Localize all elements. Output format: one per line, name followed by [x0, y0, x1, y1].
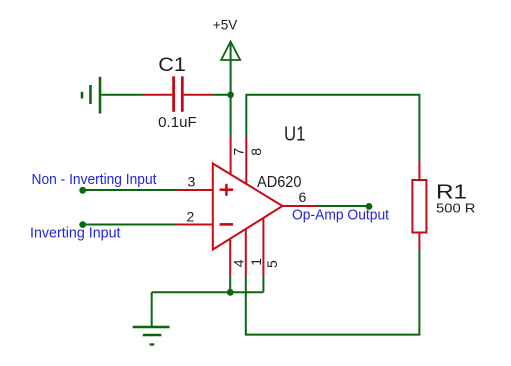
ground rail wire (green)	[152, 291, 264, 293]
wire pin 5 down to ground rail (green)	[262, 276, 264, 292]
svg-text:U1: U1	[284, 124, 306, 146]
power symbol +5V triangle	[221, 42, 240, 61]
pin 1 stub red	[245, 230, 247, 277]
pin 7 stub red	[230, 138, 232, 175]
svg-text:0.1uF: 0.1uF	[158, 114, 197, 131]
pin 6 output stub red	[283, 205, 318, 207]
wire pin 1 down and right to R1 bottom (green)	[246, 250, 420, 335]
node junction dot at +5V / C1	[227, 92, 234, 99]
svg-text:7: 7	[231, 148, 247, 156]
op-amp U1 triangle	[213, 164, 283, 250]
svg-text:5: 5	[264, 260, 280, 268]
wire pin 8 up and across (green)	[246, 95, 419, 162]
wire output (green)	[317, 205, 369, 207]
ground symbol	[133, 327, 170, 345]
svg-text:Inverting Input: Inverting Input	[30, 225, 121, 242]
svg-text:Op-Amp Output: Op-Amp Output	[292, 207, 389, 223]
wire C1 right lead (red)	[184, 94, 213, 96]
svg-text:8: 8	[248, 148, 264, 156]
wire pin 4 to ground rail (green)	[229, 276, 231, 292]
pin 5 stub red	[262, 218, 264, 277]
svg-text:+5V: +5V	[213, 17, 238, 32]
node dot pin2 wire	[79, 221, 86, 228]
wire pin 3 (green)	[83, 189, 177, 191]
svg-text:1: 1	[248, 258, 264, 266]
svg-text:2: 2	[187, 209, 195, 225]
wire pin 2 (green)	[83, 224, 177, 226]
wire C1 left lead (red)	[143, 94, 172, 96]
svg-text:Non - Inverting Input: Non - Inverting Input	[32, 171, 158, 188]
wire C1 to node (green)	[213, 94, 232, 96]
node dot ground rail / pin4	[227, 289, 234, 296]
pin 3 stub red	[177, 189, 213, 191]
svg-text:3: 3	[188, 174, 196, 190]
resistor R1 lead bottom red	[418, 233, 420, 250]
resistor R1 body	[412, 180, 426, 233]
node dot output	[366, 203, 373, 210]
wire left terminal to C1 (green)	[100, 94, 143, 96]
svg-text:AD620: AD620	[257, 174, 302, 191]
svg-text:6: 6	[299, 189, 307, 205]
svg-text:4: 4	[230, 259, 246, 267]
wire +5V vertical into pin 7	[230, 43, 232, 138]
pin 4 stub red	[229, 240, 231, 277]
node dot pin3 wire	[79, 187, 86, 194]
pin 2 stub red	[177, 224, 213, 226]
pin 8 stub red	[245, 138, 247, 184]
op-amp plus sign	[220, 184, 234, 196]
svg-text:R1: R1	[436, 181, 467, 203]
svg-text:C1: C1	[158, 55, 186, 76]
capacitor C1 plates	[174, 76, 183, 112]
resistor R1 lead top red	[418, 162, 420, 180]
wire ground drop (green)	[151, 292, 153, 326]
antenna / input terminal symbol left	[82, 77, 100, 114]
svg-text:500 R: 500 R	[436, 202, 476, 216]
op-amp minus sign	[220, 223, 234, 226]
